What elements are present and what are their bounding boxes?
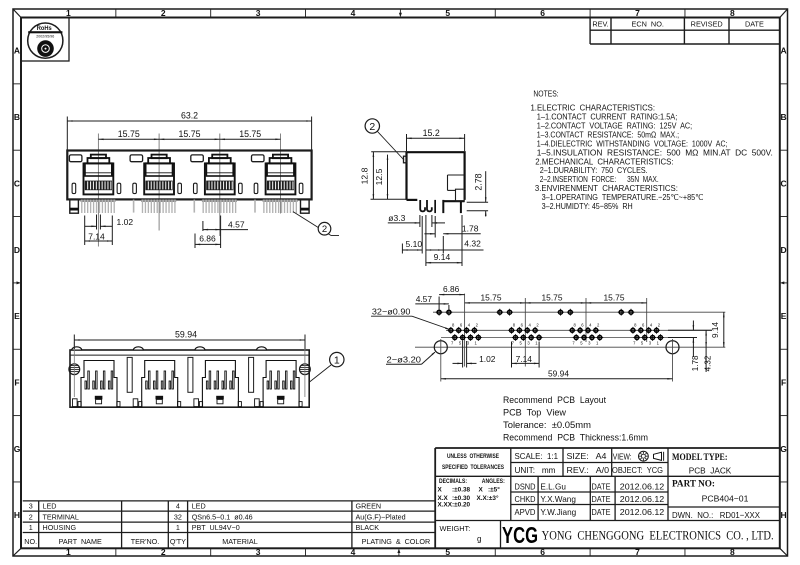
svg-text:MATERIAL: MATERIAL [222, 537, 257, 546]
svg-text:PCB JACK: PCB JACK [689, 465, 732, 475]
zone number labels top [66, 8, 735, 18]
dimension 15.2 [407, 128, 465, 151]
svg-text:15.75: 15.75 [542, 293, 563, 303]
object cell [612, 465, 663, 475]
dimension 4.32 side [426, 238, 484, 250]
company name [542, 527, 774, 542]
svg-text:32: 32 [174, 513, 182, 522]
svg-text:YCG: YCG [502, 522, 538, 548]
callout 2 front view [293, 212, 339, 236]
dimension 15.75 pcb a [465, 293, 526, 304]
svg-text:4: 4 [351, 547, 356, 557]
svg-text::±5°: :±5° [488, 486, 500, 494]
svg-text:6: 6 [540, 547, 545, 557]
pcb mounting hole right [666, 339, 679, 382]
svg-text::±0.20: :±0.20 [452, 502, 471, 509]
svg-text:1: 1 [657, 341, 660, 346]
dimension 9.14 pcb [711, 312, 724, 347]
svg-text:15.75: 15.75 [118, 129, 140, 139]
svg-text:1: 1 [66, 547, 71, 557]
svg-text:1: 1 [29, 523, 33, 532]
rear view top bumps [72, 347, 267, 350]
svg-text:X.X:±3°: X.X:±3° [477, 494, 499, 502]
pcb layout group centerlines [465, 294, 647, 367]
svg-text:QSn6.5−0.1 ø0.46: QSn6.5−0.1 ø0.46 [192, 513, 253, 522]
pcb mounting hole left [434, 339, 447, 382]
dwn no cell [672, 510, 760, 520]
dimension 1.78 pcb [668, 321, 712, 372]
title block grid [435, 448, 780, 548]
svg-text:15.75: 15.75 [481, 293, 502, 303]
dimension dia 3.3 [388, 213, 445, 227]
svg-text:C: C [14, 178, 20, 188]
svg-text:1.78: 1.78 [462, 224, 479, 234]
svg-text:5: 5 [459, 341, 462, 346]
parts table grid [23, 501, 436, 548]
label 32-dia0.90 [371, 307, 450, 330]
callout 1 rear view [310, 352, 344, 382]
YCG logo [502, 522, 538, 548]
svg-text:APVD: APVD [515, 508, 536, 517]
svg-text:4: 4 [176, 502, 180, 511]
svg-text:PART NO:: PART NO: [672, 480, 715, 490]
svg-text:PLATING & COLOR: PLATING & COLOR [362, 537, 431, 546]
svg-text:G: G [780, 444, 787, 454]
svg-text:1: 1 [334, 355, 340, 367]
svg-text:Recommend PCB Layout: Recommend PCB Layout [503, 395, 606, 406]
dimension 59.94 rear [74, 329, 305, 349]
svg-text:1.02: 1.02 [479, 354, 496, 364]
svg-text:TERMINAL: TERMINAL [43, 513, 79, 522]
dsnd row [515, 482, 665, 492]
svg-text:X: X [438, 487, 443, 494]
svg-text:MODEL TYPE:: MODEL TYPE: [672, 453, 728, 463]
svg-text:ECN NO.: ECN NO. [631, 20, 663, 29]
svg-text:Y.W.Jiang: Y.W.Jiang [540, 508, 576, 517]
svg-text:8: 8 [730, 8, 735, 18]
svg-text:OBJECT: YCG: OBJECT: YCG [612, 465, 663, 475]
svg-text:DATE: DATE [592, 483, 611, 492]
svg-text:5: 5 [580, 341, 583, 346]
svg-text:Au(G.F)−Plated: Au(G.F)−Plated [356, 513, 406, 522]
callout 2 side view [365, 119, 404, 160]
dimension 4.57 front [203, 216, 248, 249]
svg-text:1: 1 [66, 8, 71, 18]
svg-text:D: D [14, 245, 20, 255]
svg-text:2: 2 [29, 513, 33, 522]
dimension 15.75 b [159, 129, 220, 140]
dimension 12.5 [374, 155, 388, 200]
zone number labels bottom [66, 547, 735, 557]
svg-text:SPECIFIED TOLERANCES: SPECIFIED TOLERANCES [442, 464, 504, 471]
zone letter labels left [14, 46, 21, 520]
svg-text:9.14: 9.14 [434, 252, 451, 262]
svg-text:NO.: NO. [24, 537, 37, 546]
svg-text:4: 4 [650, 323, 653, 328]
svg-text:7: 7 [512, 341, 515, 346]
svg-text:9.14: 9.14 [711, 322, 720, 338]
revision table [590, 18, 780, 45]
svg-text:RoHs: RoHs [37, 25, 52, 32]
svg-text:6: 6 [642, 323, 645, 328]
svg-text:7.14: 7.14 [88, 231, 105, 241]
rear view port block 1 [73, 361, 121, 407]
front view left foot [70, 199, 79, 213]
svg-text:ANGLES:: ANGLES: [482, 478, 505, 485]
retention tabs front view [72, 183, 303, 193]
pcb layout LED pin holes [436, 309, 635, 316]
svg-text:F: F [781, 377, 786, 387]
svg-text:DWN. NO.: RD01−XXX: DWN. NO.: RD01−XXX [672, 510, 760, 520]
svg-text:E.L.Gu: E.L.Gu [540, 483, 566, 492]
svg-text:E: E [14, 311, 20, 321]
svg-text:BLACK: BLACK [356, 523, 380, 532]
svg-text:3: 3 [588, 341, 591, 346]
pcb layout row lines [415, 312, 725, 347]
svg-text:Tolerance: ±0.05mm: Tolerance: ±0.05mm [503, 420, 591, 431]
svg-text:8: 8 [573, 323, 576, 328]
svg-text:HOUSING: HOUSING [43, 523, 77, 532]
svg-text::±0.38: :±0.38 [452, 487, 471, 494]
svg-text:X.XX: X.XX [438, 502, 453, 509]
svg-text:7: 7 [633, 341, 636, 346]
side view hook pins [420, 200, 432, 211]
svg-text:4: 4 [351, 8, 356, 18]
svg-text:2: 2 [369, 121, 375, 133]
svg-text:4: 4 [528, 323, 531, 328]
svg-text:GREEN: GREEN [356, 502, 382, 511]
svg-text:32−ø0.90: 32−ø0.90 [372, 307, 411, 317]
svg-text:g: g [477, 535, 481, 544]
svg-text:63.2: 63.2 [181, 111, 198, 121]
svg-text:8: 8 [730, 547, 735, 557]
rear view body [70, 350, 309, 407]
svg-text:DECIMALS:: DECIMALS: [439, 478, 467, 485]
svg-text:DATE: DATE [592, 508, 611, 517]
svg-text:2: 2 [161, 547, 166, 557]
svg-text:2012.06.12: 2012.06.12 [620, 507, 665, 517]
dimension 5.10 [402, 239, 422, 253]
dimension 15.75 a [98, 129, 159, 140]
svg-text:1: 1 [535, 341, 538, 346]
dimension 15.75 pcb c [586, 293, 647, 304]
svg-text:1: 1 [596, 341, 599, 346]
svg-text:DSND: DSND [515, 483, 536, 492]
svg-text:WEIGHT:: WEIGHT: [440, 524, 471, 533]
svg-text:7: 7 [635, 547, 640, 557]
parts table text [24, 502, 430, 546]
svg-text:UNIT: mm: UNIT: mm [515, 465, 556, 475]
svg-text:15.75: 15.75 [178, 129, 200, 139]
svg-text:H: H [14, 510, 20, 520]
svg-text:8: 8 [634, 323, 637, 328]
pcb hole group port 2 [508, 323, 542, 346]
svg-text:D: D [781, 245, 787, 255]
RoHS logo box [21, 18, 69, 62]
svg-text:LED: LED [43, 502, 57, 511]
svg-text:4.57: 4.57 [416, 294, 433, 304]
svg-text:7: 7 [635, 8, 640, 18]
zone letter labels right [780, 46, 787, 520]
dimension 1.02 pcb [453, 341, 496, 368]
side view body [407, 152, 465, 201]
scale cell [515, 451, 559, 461]
rear view port block 2 [133, 361, 181, 407]
svg-text:4.57: 4.57 [228, 219, 245, 229]
svg-text:59.94: 59.94 [175, 329, 197, 339]
dimension 1.02 front [85, 215, 133, 230]
svg-text:2012.06.12: 2012.06.12 [620, 494, 665, 504]
svg-text:12.8: 12.8 [360, 167, 370, 184]
front view body [67, 151, 311, 200]
svg-text:2: 2 [322, 224, 327, 235]
svg-text:SCALE: 1:1: SCALE: 1:1 [515, 451, 559, 461]
dimension 63.2 [67, 111, 311, 150]
svg-text:4: 4 [589, 323, 592, 328]
model type cell [672, 453, 732, 475]
front view right foot [301, 199, 310, 213]
chkd row [515, 494, 665, 504]
svg-text:B: B [781, 112, 787, 122]
svg-text:5: 5 [520, 341, 523, 346]
svg-text:2012.06.12: 2012.06.12 [620, 482, 665, 492]
side view step lines [448, 175, 465, 201]
dimension 4.32 pcb [703, 330, 712, 372]
RJ45 port 2 front [144, 155, 174, 195]
svg-text:LED: LED [192, 502, 206, 511]
svg-text:15.75: 15.75 [239, 129, 261, 139]
side view straight pins [434, 200, 462, 213]
svg-text:F: F [14, 377, 19, 387]
svg-text:4: 4 [468, 323, 471, 328]
svg-text:DATE: DATE [745, 20, 764, 29]
dimension 15.75 pcb b [525, 293, 586, 304]
svg-text:6: 6 [460, 323, 463, 328]
RJ45 port 3 front [205, 155, 235, 195]
recommend pcb text [503, 395, 648, 443]
svg-text:REV.: A/0: REV.: A/0 [567, 465, 610, 475]
svg-text:C: C [781, 178, 787, 188]
LED windows front view [69, 155, 264, 162]
svg-text:NOTES:: NOTES: [533, 89, 558, 99]
dimension 6.86 front [195, 234, 221, 249]
svg-text:15.75: 15.75 [604, 293, 625, 303]
svg-text:5: 5 [641, 341, 644, 346]
svg-text:3: 3 [527, 341, 530, 346]
view cell [613, 451, 664, 461]
svg-text:YONG CHENGGONG ELECTRONICS: YONG CHENGGONG ELECTRONICS CO. , LTD. [542, 527, 774, 542]
weight cell [440, 524, 482, 544]
svg-text:REV.: REV. [592, 20, 608, 29]
svg-text:2002/95/96: 2002/95/96 [36, 35, 54, 39]
pcb hole group port 4 [630, 323, 664, 346]
svg-text:TER'NO.: TER'NO. [131, 537, 160, 546]
dimension 2.78 [467, 171, 488, 216]
dimension 9.14 side [426, 215, 462, 266]
rear view screw posts [69, 342, 310, 397]
dimension 6.86 pcb [439, 284, 465, 309]
part no cell [672, 480, 749, 504]
svg-text:1.02: 1.02 [117, 217, 134, 227]
unit cell [515, 465, 556, 475]
dimension 12.8 [360, 152, 406, 200]
svg-text:REVISED: REVISED [691, 20, 723, 29]
rev cell [567, 465, 610, 475]
svg-text:1: 1 [176, 523, 180, 532]
svg-text:VIEW:: VIEW: [613, 451, 632, 461]
side view latch tab [404, 156, 407, 163]
svg-text:B: B [14, 112, 20, 122]
dimension 7.14 front [85, 216, 113, 246]
RJ45 port 4 front [266, 155, 296, 195]
tolerance box text [438, 453, 505, 509]
dimension 4.57 pcb [415, 294, 449, 310]
RJ45 port 1 front [84, 155, 114, 195]
svg-text:5.10: 5.10 [406, 239, 423, 249]
front view centerlines [98, 134, 280, 247]
svg-text:X: X [479, 487, 484, 494]
rear view port block 3 [194, 361, 242, 407]
notes text block [531, 89, 773, 211]
svg-text:8: 8 [452, 323, 455, 328]
svg-text:12.5: 12.5 [374, 168, 384, 185]
svg-text:5: 5 [445, 8, 450, 18]
pcb hole group port 1 [447, 323, 481, 346]
dimension 15.75 c [220, 129, 281, 140]
svg-text:2: 2 [536, 323, 539, 328]
svg-text:4.32: 4.32 [703, 355, 712, 371]
svg-text:CHKD: CHKD [515, 495, 536, 504]
RoHS logo [28, 23, 63, 58]
pcb hole group port 3 [569, 323, 603, 346]
svg-text:Recommend PCB Thickness:1.6m: Recommend PCB Thickness:1.6mm [503, 432, 648, 443]
svg-text:1: 1 [475, 341, 478, 346]
size cell [567, 451, 607, 461]
svg-text:PCB404−01: PCB404−01 [702, 493, 749, 503]
svg-text:A: A [14, 46, 20, 56]
svg-text:6: 6 [540, 8, 545, 18]
svg-text:3: 3 [467, 341, 470, 346]
svg-text:3: 3 [256, 547, 261, 557]
svg-text:PART NAME: PART NAME [59, 537, 102, 546]
svg-text:2: 2 [658, 323, 661, 328]
svg-text:4.32: 4.32 [464, 238, 481, 248]
front view terminal pins [81, 200, 298, 213]
svg-text:5: 5 [445, 547, 450, 557]
svg-text:6.86: 6.86 [199, 234, 216, 244]
dimension 7.14 pcb [512, 342, 540, 368]
side view pin extension lines [422, 216, 435, 254]
svg-text:59.94: 59.94 [548, 369, 569, 379]
rear view slots [127, 357, 253, 392]
svg-text:6: 6 [521, 323, 524, 328]
dimension 1.78 side [424, 224, 480, 235]
svg-text:8: 8 [513, 323, 516, 328]
svg-text:G: G [14, 444, 21, 454]
svg-text:PBT UL94V−0: PBT UL94V−0 [192, 523, 240, 532]
svg-text:E: E [781, 311, 787, 321]
svg-text:3: 3 [256, 8, 261, 18]
dimension 59.94 pcb [441, 369, 673, 380]
svg-text:7.14: 7.14 [516, 354, 533, 364]
svg-text:UNLESS OTHERWISE: UNLESS OTHERWISE [447, 453, 499, 460]
svg-text:3–2.HUMIDTY: 45−85% RH: 3–2.HUMIDTY: 45−85% RH [542, 201, 633, 211]
svg-text:3: 3 [649, 341, 652, 346]
svg-text:DATE: DATE [592, 495, 611, 504]
svg-text:SIZE: A4: SIZE: A4 [567, 451, 607, 461]
svg-text:Y.X.Wang: Y.X.Wang [540, 495, 576, 504]
apvd row [515, 507, 665, 517]
label 2-dia3.20 [386, 351, 436, 364]
svg-text:7: 7 [451, 341, 454, 346]
svg-text:2−ø3.20: 2−ø3.20 [387, 355, 422, 365]
svg-text:Q'TY: Q'TY [170, 537, 186, 546]
svg-text:2: 2 [597, 323, 600, 328]
svg-text:H: H [781, 510, 787, 520]
svg-text:ø3.3: ø3.3 [388, 213, 405, 223]
svg-text:A: A [781, 46, 787, 56]
svg-text:2.78: 2.78 [474, 173, 484, 190]
svg-text:1.78: 1.78 [691, 355, 700, 371]
svg-text:15.2: 15.2 [423, 128, 440, 138]
svg-text:2: 2 [161, 8, 166, 18]
rear view port block 4 [255, 361, 303, 407]
svg-text:6.86: 6.86 [443, 284, 460, 294]
svg-text:2: 2 [476, 323, 479, 328]
svg-text:PCB Top View: PCB Top View [503, 408, 566, 419]
svg-text:6: 6 [581, 323, 584, 328]
svg-text:3: 3 [29, 502, 33, 511]
svg-text:7: 7 [572, 341, 575, 346]
